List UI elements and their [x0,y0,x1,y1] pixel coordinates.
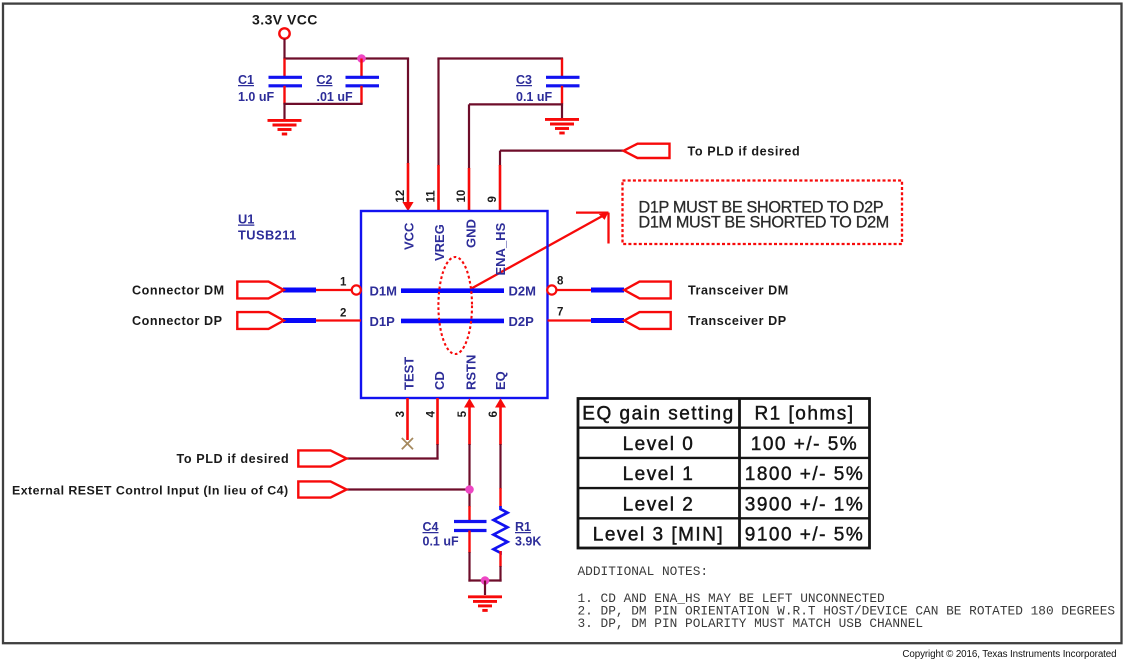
svg-text:TUSB211: TUSB211 [238,228,297,243]
pin name VREG [432,224,447,261]
label To PLD if desired (bottom) [177,452,290,466]
refdes U1 [238,212,297,243]
label Connector DM [132,284,225,298]
pin name GND [464,219,479,248]
wire C1 top stub [283,59,285,78]
svg-text:Transceiver DP: Transceiver DP [688,314,787,328]
pin name ENA_HS [493,222,508,275]
wire R1 bottom stub [499,551,501,567]
table EQ gain settings [578,399,870,549]
pin number 6 [488,411,500,417]
svg-text:To PLD if desired: To PLD if desired [177,452,290,466]
note 3 [578,616,924,631]
svg-text:6: 6 [488,411,500,417]
wire C4 maroon down [468,552,470,582]
label Transceiver DM [688,284,789,298]
svg-text:3: 3 [395,411,407,417]
wire pin 11 red stub [437,165,440,211]
label Connector DP [132,314,223,328]
wire pin 12 red stub with arrow into IC [402,163,413,211]
svg-text:9100 +/- 5%: 9100 +/- 5% [745,525,865,546]
wire pin 7 [548,319,594,321]
junction dot ground net [481,576,490,585]
wire ENA_HS horizontal to PLD flag [500,150,624,152]
wire C2 top stub [360,59,362,78]
capacitor C4 [423,520,487,549]
svg-text:0.1 uF: 0.1 uF [516,90,552,104]
off-page flag Transceiver DP [624,312,670,329]
svg-text:7: 7 [557,307,563,319]
wire bottom horizontal C4-R1 [468,579,501,581]
svg-text:Copyright © 2016, Texas Instru: Copyright © 2016, Texas Instruments Inco… [902,649,1116,659]
svg-text:External RESET Control Input (: External RESET Control Input (In lieu of… [12,483,289,497]
pin number 7 [557,307,563,319]
svg-text:Transceiver DM: Transceiver DM [688,284,789,298]
svg-text:.01 uF: .01 uF [317,90,353,104]
svg-text:Level 2: Level 2 [623,494,695,515]
svg-text:C1: C1 [238,73,254,87]
svg-text:D1M: D1M [370,284,397,299]
internal trace D1M-D2M [401,288,504,293]
svg-text:VCC: VCC [402,222,417,250]
bus bar transceiver DM [591,288,624,293]
svg-text:3.9K: 3.9K [515,535,541,549]
wire R1 top stub [499,488,501,507]
pin name D2P [509,314,535,329]
pin name TEST [402,357,417,390]
svg-text:3900 +/- 1%: 3900 +/- 1% [745,494,865,515]
internal trace D1P-D2P [401,319,504,324]
no-connect X on TEST [402,438,413,449]
off-page flag Connector DP [237,312,283,329]
svg-text:10: 10 [456,190,468,203]
wire top horizontal C1 to pin 12 [283,57,409,59]
wire pin 12 vertical maroon [407,59,409,165]
pin name EQ [493,371,508,390]
junction dot RSTN [465,485,474,494]
wire RESET horizontal [347,488,470,490]
svg-text:2: 2 [340,308,346,320]
power terminal circle 3.3V VCC [279,28,289,38]
svg-text:ADDITIONAL NOTES:: ADDITIONAL NOTES: [578,564,709,579]
note 1 [578,591,885,606]
wire RSTN maroon down [468,444,470,507]
label External RESET Control Input [12,483,289,497]
off-page flag Transceiver DM [624,282,670,299]
svg-text:4: 4 [426,410,438,417]
pin 1 bubble [352,285,361,294]
wire pin 5 stub with arrow [464,398,475,445]
svg-text:CD: CD [432,371,447,390]
svg-text:To PLD if desired: To PLD if desired [688,145,801,159]
svg-text:VREG: VREG [432,224,447,261]
svg-text:D2P: D2P [509,314,535,329]
wire C1 bottom stub [283,86,285,104]
off-page flag External RESET [298,481,346,497]
ground symbol bottom [468,597,502,611]
svg-text:Level 1: Level 1 [623,464,695,485]
svg-text:100 +/- 5%: 100 +/- 5% [751,434,858,455]
dashed ellipse short annotation [438,257,472,354]
pin number 11 [426,190,438,203]
pin name CD [432,371,447,390]
label To PLD if desired (top) [688,145,801,159]
svg-text:C4: C4 [423,520,439,534]
pin name D1M [370,284,397,299]
svg-text:C3: C3 [516,73,532,87]
wire CD horizontal to PLD flag [347,457,439,459]
wire C4 bottom stub [468,531,470,554]
svg-text:D2M: D2M [509,284,536,299]
note 2 [578,604,1116,619]
capacitor C1 [238,73,302,104]
svg-text:3. DP, DM PIN POLARITY MUST MA: 3. DP, DM PIN POLARITY MUST MATCH USB CH… [578,616,924,631]
pin number 5 [457,410,469,417]
note box dashed D1P/D1M shorted [623,181,903,245]
pin number 3 [395,411,407,417]
wire pin 11 vertical maroon [437,59,439,167]
wire pin 10 red stub [468,168,471,211]
svg-text:TEST: TEST [402,357,417,390]
svg-text:R1 [ohms]: R1 [ohms] [754,404,854,425]
wire pin 10 vertical maroon [468,104,470,169]
ground symbol under C1 [268,120,302,134]
annotation arrow from ellipse to note box [471,213,609,289]
svg-text:8: 8 [557,276,564,288]
resistor R1 [494,506,542,553]
svg-text:RSTN: RSTN [464,355,479,390]
svg-text:EQ: EQ [493,371,508,390]
bus bar connector DP [283,318,316,323]
svg-text:Level 3 [MIN]: Level 3 [MIN] [593,525,724,546]
bus bar connector DM [283,288,316,293]
wire pin 9 vertical maroon [499,151,501,166]
wire pin 1 [314,289,352,291]
svg-text:12: 12 [395,190,407,203]
pin number 9 [487,196,499,202]
svg-text:9: 9 [487,196,499,202]
pin name VCC [402,222,417,250]
wire C3 bottom stub [561,86,563,104]
svg-text:0.1 uF: 0.1 uF [423,535,459,549]
wire stub to ground [484,581,486,596]
net label 3.3V VCC [252,12,318,28]
pin number 4 [426,410,438,417]
additional notes heading [578,564,709,579]
capacitor C2 [317,73,380,104]
wire C3 top stub [561,59,563,78]
wire C2 bottom stub [360,86,362,104]
svg-text:1.0 uF: 1.0 uF [238,90,274,104]
pin number 12 [395,190,407,203]
svg-text:1: 1 [340,277,347,289]
pin name D1P [370,314,396,329]
pin number 2 [340,308,346,320]
svg-text:11: 11 [426,190,438,203]
wire pin 8 [556,289,593,291]
off-page flag To PLD (ENA_HS) [624,144,670,158]
wire pin 3 stub [406,398,409,440]
junction dot at C2 [357,54,366,63]
wire R1 maroon down [499,566,501,582]
svg-text:Connector DM: Connector DM [132,284,225,298]
label Transceiver DP [688,314,787,328]
wire pin 6 stub with arrow [495,398,506,445]
wire pin 2 [314,319,361,321]
pin number 10 [456,190,468,203]
pin 8 bubble [547,285,556,294]
off-page flag To PLD (CD) [298,450,346,466]
svg-text:U1: U1 [238,212,254,227]
svg-text:Connector DP: Connector DP [132,314,223,328]
wire C4 top stub [468,506,470,521]
svg-text:D1M MUST BE SHORTED TO D2M: D1M MUST BE SHORTED TO D2M [639,214,889,232]
wire VCC vertical from terminal [283,39,285,59]
wire pin 9 red stub [499,165,502,211]
capacitor C3 [516,73,580,104]
svg-text:GND: GND [464,219,479,248]
pin name RSTN [464,355,479,390]
svg-text:R1: R1 [515,520,531,534]
wire to ground under C3 [561,104,563,118]
svg-text:3.3V VCC: 3.3V VCC [252,12,318,28]
wire GND horizontal pin10 to C3 [469,103,563,105]
svg-text:1800 +/- 5%: 1800 +/- 5% [745,464,865,485]
op-amp U1 TUSB211 IC body [361,211,548,398]
wire bottom horizontal C1-C2 [283,103,362,105]
svg-text:D1P: D1P [370,314,396,329]
svg-text:5: 5 [457,410,469,417]
pin name D2M [509,284,536,299]
ground symbol under C3 [545,119,579,133]
wire pin 4 stub [436,398,439,445]
svg-text:C2: C2 [317,73,333,87]
wire pin 4 maroon down [436,444,438,460]
svg-text:EQ gain setting: EQ gain setting [582,404,734,425]
wire top horizontal pin 11 to C3 [437,57,563,59]
off-page flag Connector DM [237,282,283,299]
svg-text:Level 0: Level 0 [623,434,695,455]
pin number 8 [557,276,564,288]
copyright [902,649,1116,659]
pin number 1 [340,277,347,289]
wire to ground under C1 [283,104,285,119]
wire EQ maroon down [499,444,501,489]
svg-text:ENA_HS: ENA_HS [493,222,508,275]
bus bar transceiver DP [591,318,624,323]
